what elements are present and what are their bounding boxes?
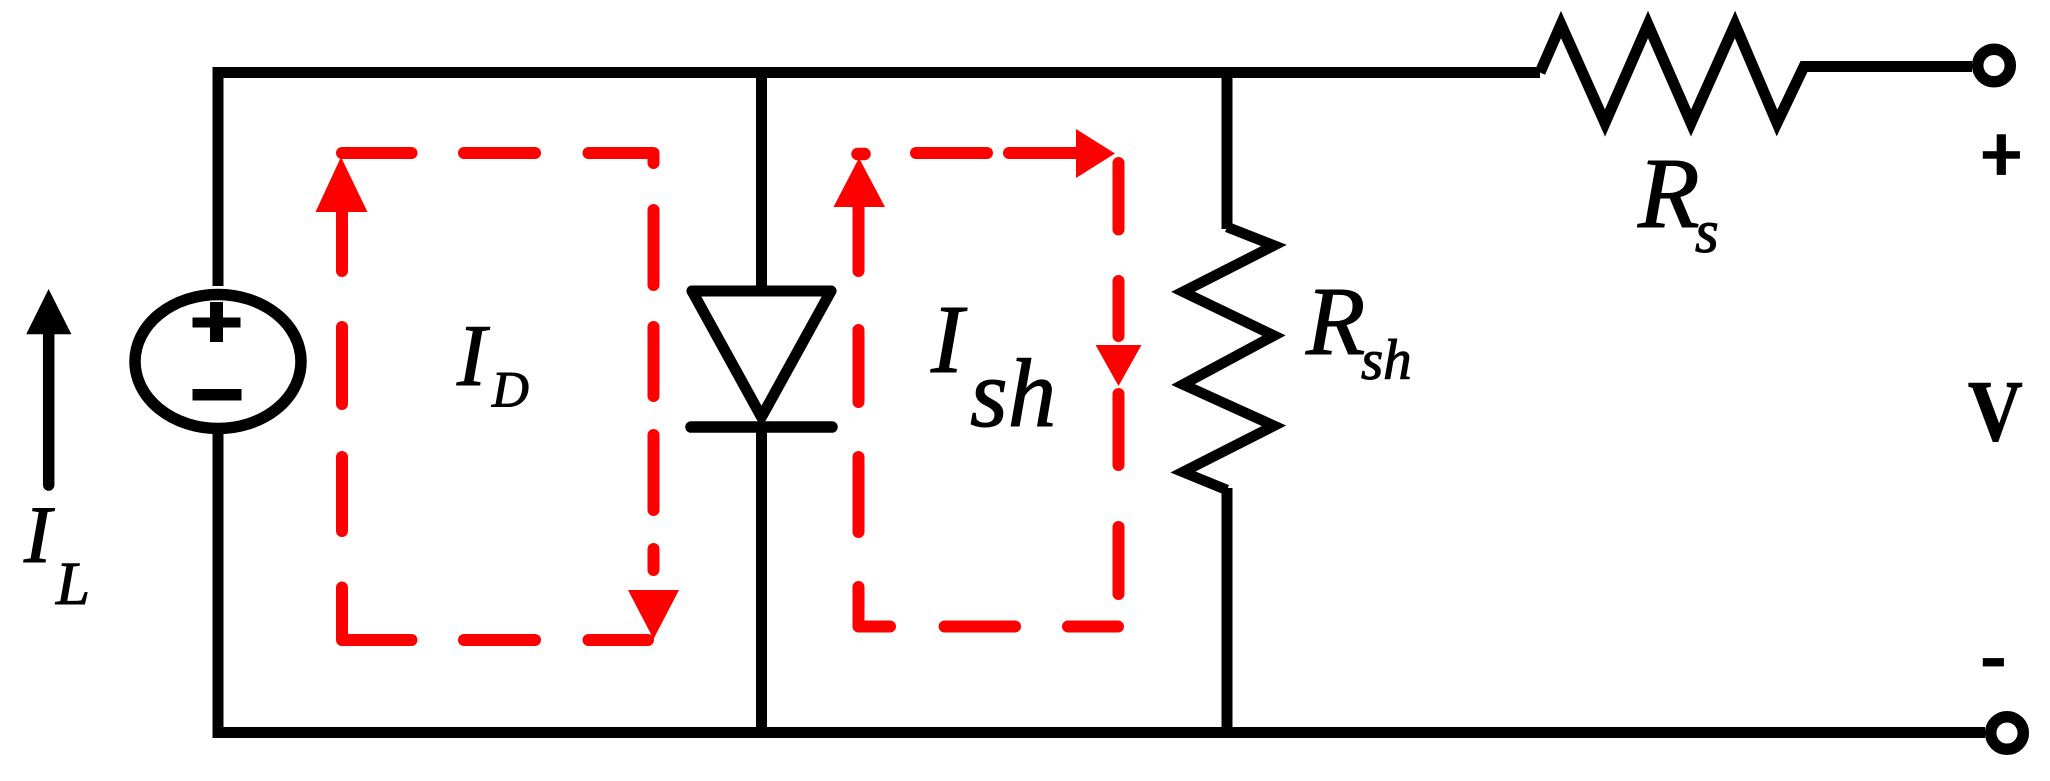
svg-text:D: D	[491, 363, 529, 419]
label ID	[456, 308, 529, 419]
svg-text:sh: sh	[1361, 329, 1412, 392]
red loop ID : left side dashes	[336, 327, 348, 531]
diode D	[691, 291, 832, 427]
wire: left vertical below current source, bottom rail	[218, 430, 1985, 733]
red loop ID : top side dashes	[342, 153, 654, 163]
resistor Rs (horizontal zigzag)	[1540, 25, 1972, 124]
red loop Ish : start dot (top-left)	[858, 148, 865, 161]
photocurrent arrow IL	[26, 289, 71, 485]
wire: Rsh branch lower segment	[1222, 488, 1233, 738]
svg-text:L: L	[55, 551, 90, 618]
red loop Ish : down arrow (right side)	[1096, 345, 1142, 386]
red loop ID : right side dashes	[648, 210, 660, 570]
wire: diode branch upper segment	[756, 67, 767, 293]
minus sign	[1983, 658, 2004, 666]
current source IL (circle with + and -)	[135, 295, 301, 429]
label Rs	[1637, 137, 1719, 266]
label IL	[23, 489, 90, 618]
red loop ID : down arrow (bottom-right corner)	[628, 590, 679, 639]
svg-text:V: V	[1968, 362, 2023, 459]
red loop Ish : top side dashes	[916, 147, 1076, 159]
red loop ID : bottom side dashes	[342, 588, 648, 641]
red loop ID : up arrow (left side)	[316, 157, 368, 271]
resistor Rsh (vertical zigzag)	[1183, 227, 1274, 490]
label Rsh	[1305, 268, 1412, 392]
svg-text:I: I	[930, 286, 968, 393]
red loop Ish : right arrow (top-right corner)	[1076, 129, 1115, 178]
svg-text:I: I	[456, 308, 490, 405]
red loop Ish : left side dashes	[853, 330, 865, 532]
svg-text:sh: sh	[970, 340, 1056, 447]
wire: diode branch lower segment	[756, 425, 767, 738]
svg-text:s: s	[1695, 199, 1719, 266]
terminal top-right (+)	[1978, 49, 2011, 82]
wire: top rail with left vertical drop to current source	[218, 73, 1540, 287]
label Ish	[930, 286, 1056, 447]
svg-text:R: R	[1305, 268, 1365, 375]
terminal bottom-right (-)	[1991, 717, 2024, 750]
red loop Ish : up arrow (left side)	[834, 158, 886, 271]
red loop Ish : right side dashes	[1113, 163, 1125, 594]
svg-text:I: I	[23, 489, 55, 580]
wire: Rsh branch upper segment	[1222, 67, 1233, 229]
svg-text:R: R	[1637, 137, 1700, 249]
red loop Ish : bottom side dashes	[859, 587, 1119, 627]
plus sign	[1983, 134, 2020, 175]
